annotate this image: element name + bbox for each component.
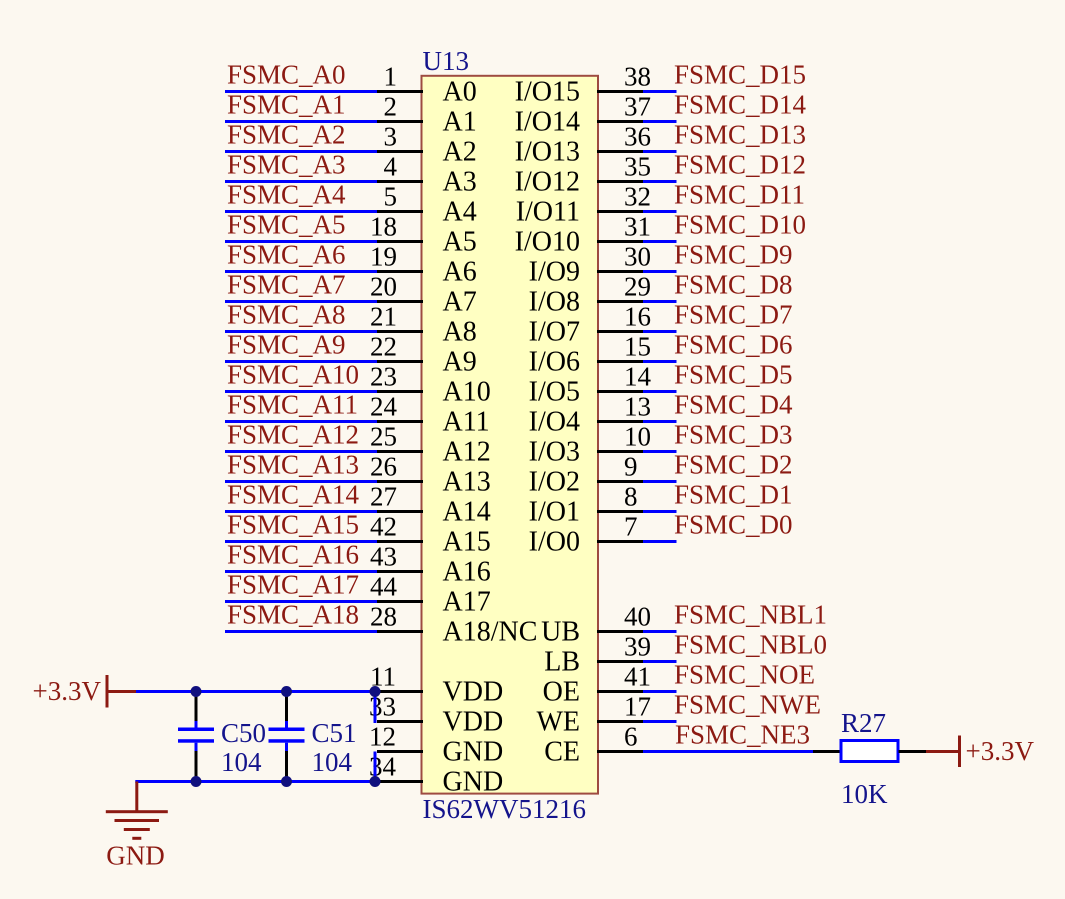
svg-text:FSMC_A9: FSMC_A9 — [227, 330, 346, 360]
junction — [191, 776, 202, 787]
net label FSMC_A4 — [227, 180, 346, 210]
U13 pin 24 (A11) — [370, 392, 490, 438]
svg-text:FSMC_A15: FSMC_A15 — [227, 510, 359, 540]
wire net FSMC_A1 (left) — [225, 120, 377, 123]
wire net FSMC_D4 (right) — [643, 420, 677, 423]
U13 pin 28 (A18/NC) — [370, 602, 537, 648]
svg-text:A13: A13 — [443, 467, 491, 498]
capacitor C50 top lead — [195, 692, 198, 729]
svg-text:FSMC_A10: FSMC_A10 — [227, 360, 359, 390]
U13 pin 40 (UB) — [541, 602, 651, 648]
svg-text:12: 12 — [369, 722, 396, 752]
wire net FSMC_A16 (left) — [225, 570, 377, 573]
IC U13 body (IS62WV51216 SRAM rectangle) — [422, 76, 599, 794]
svg-text:24: 24 — [370, 392, 398, 422]
U13 pin 42 (A15) — [370, 512, 491, 558]
U13 pin 1 (A0) — [377, 62, 477, 108]
net label FSMC_D10 — [674, 210, 806, 240]
svg-text:26: 26 — [370, 452, 397, 482]
svg-text:I/O5: I/O5 — [529, 377, 580, 408]
U13 comment IS62WV51216 — [423, 794, 587, 824]
net label FSMC_A13 — [227, 450, 359, 480]
svg-text:UB: UB — [541, 617, 580, 648]
capacitor C50 value 104 — [221, 747, 262, 777]
U13 pin 19 (A6) — [370, 242, 477, 288]
svg-text:I/O13: I/O13 — [515, 137, 580, 168]
wire net FSMC_A18 (left) — [225, 630, 377, 633]
svg-text:FSMC_D2: FSMC_D2 — [674, 450, 793, 480]
svg-text:GND: GND — [106, 841, 165, 871]
wire net FSMC_NBL0 (right) — [643, 660, 677, 663]
svg-text:VDD: VDD — [443, 677, 504, 708]
wire net FSMC_A9 (left) — [225, 360, 377, 363]
svg-text:A17: A17 — [443, 587, 491, 618]
power +3.3V port (right) — [926, 736, 1034, 768]
net label FSMC_D5 — [674, 360, 793, 390]
net label FSMC_D1 — [674, 480, 793, 510]
svg-text:29: 29 — [624, 272, 651, 302]
wire net FSMC_A14 (left) — [225, 510, 377, 513]
capacitor C51 value 104 — [312, 747, 353, 777]
net label FSMC_D0 — [674, 510, 793, 540]
net label FSMC_D12 — [674, 150, 806, 180]
wire net FSMC_D13 (right) — [643, 150, 677, 153]
power +3.3V port (left) — [33, 675, 136, 708]
junction — [370, 686, 381, 697]
net label FSMC_A12 — [227, 420, 359, 450]
svg-text:FSMC_A16: FSMC_A16 — [227, 540, 359, 570]
net label FSMC_NBL0 — [674, 630, 827, 660]
svg-text:FSMC_A8: FSMC_A8 — [227, 300, 346, 330]
svg-text:9: 9 — [624, 452, 638, 482]
svg-text:FSMC_A2: FSMC_A2 — [227, 120, 346, 150]
wire net FSMC_A17 (left) — [225, 600, 377, 603]
U13 pin 14 (I/O5) — [529, 362, 652, 408]
svg-text:10: 10 — [624, 422, 651, 452]
wire net FSMC_D3 (right) — [643, 450, 677, 453]
U13 pin 13 (I/O4) — [529, 392, 651, 438]
svg-text:21: 21 — [370, 302, 397, 332]
svg-text:A12: A12 — [443, 437, 491, 468]
U13 pin 12 (GND) — [369, 722, 503, 768]
svg-text:40: 40 — [624, 602, 651, 632]
capacitor C50 bottom lead — [195, 743, 198, 782]
net label FSMC_A8 — [227, 300, 346, 330]
svg-text:A16: A16 — [443, 557, 491, 588]
U13 pin 43 (A16) — [370, 542, 491, 588]
svg-text:FSMC_NE3: FSMC_NE3 — [675, 720, 810, 750]
wire net FSMC_D1 (right) — [643, 510, 677, 513]
U13 pin 25 (A12) — [370, 422, 491, 468]
net label FSMC_D14 — [674, 90, 807, 120]
svg-text:FSMC_A13: FSMC_A13 — [227, 450, 359, 480]
net label FSMC_A14 — [227, 480, 360, 510]
svg-text:FSMC_A11: FSMC_A11 — [227, 390, 358, 420]
svg-text:19: 19 — [370, 242, 397, 272]
wire net FSMC_A8 (left) — [225, 330, 377, 333]
svg-text:I/O7: I/O7 — [529, 317, 580, 348]
svg-text:A1: A1 — [443, 107, 477, 138]
resistor R27 pin 2 lead — [899, 750, 927, 753]
svg-text:C51: C51 — [312, 718, 357, 748]
wire net FSMC_A3 (left) — [225, 180, 377, 183]
U13 pin 33 (VDD) — [369, 692, 503, 738]
svg-text:A6: A6 — [443, 257, 477, 288]
svg-text:FSMC_A3: FSMC_A3 — [227, 150, 346, 180]
wire +3.3V rail — [136, 690, 377, 693]
net label FSMC_D3 — [674, 420, 793, 450]
wire net FSMC_A2 (left) — [225, 150, 377, 153]
wire net FSMC_NOE (right) — [643, 690, 677, 693]
wire net FSMC_A4 (left) — [225, 210, 377, 213]
U13 pin 8 (I/O1) — [529, 482, 643, 528]
svg-text:VDD: VDD — [443, 707, 504, 738]
svg-text:FSMC_A0: FSMC_A0 — [227, 60, 346, 90]
net label FSMC_A6 — [227, 240, 346, 270]
net label FSMC_A2 — [227, 120, 346, 150]
net label FSMC_A17 — [227, 570, 359, 600]
svg-text:I/O8: I/O8 — [529, 287, 580, 318]
svg-text:I/O6: I/O6 — [529, 347, 580, 378]
svg-text:FSMC_NBL0: FSMC_NBL0 — [674, 630, 827, 660]
wire net FSMC_A13 (left) — [225, 480, 377, 483]
svg-text:38: 38 — [624, 62, 651, 92]
svg-text:I/O11: I/O11 — [516, 197, 580, 228]
svg-text:43: 43 — [370, 542, 397, 572]
U13 pin 4 (A3) — [377, 152, 477, 198]
net label FSMC_NE3 — [675, 720, 810, 750]
svg-text:CE: CE — [544, 737, 580, 768]
svg-text:FSMC_A6: FSMC_A6 — [227, 240, 346, 270]
svg-text:A14: A14 — [443, 497, 491, 528]
capacitor C51 plates — [269, 728, 305, 743]
net label FSMC_D15 — [674, 60, 806, 90]
svg-text:A18/NC: A18/NC — [443, 617, 538, 648]
ground GND symbol — [106, 782, 168, 871]
U13 pin 32 (I/O11) — [516, 182, 651, 228]
wire net FSMC_D11 (right) — [643, 210, 677, 213]
junction — [370, 776, 381, 787]
svg-text:23: 23 — [370, 362, 397, 392]
svg-text:30: 30 — [624, 242, 651, 272]
svg-text:4: 4 — [384, 152, 398, 182]
net label FSMC_A9 — [227, 330, 346, 360]
net label FSMC_NWE — [674, 690, 821, 720]
svg-text:FSMC_D5: FSMC_D5 — [674, 360, 793, 390]
U13 pin 34 (GND) — [369, 752, 503, 798]
net label FSMC_A15 — [227, 510, 359, 540]
net label FSMC_D13 — [674, 120, 806, 150]
U13 pin 11 (VDD) — [370, 662, 503, 708]
svg-text:36: 36 — [624, 122, 651, 152]
U13 pin 17 (WE) — [536, 692, 651, 738]
wire net FSMC_A0 (left) — [225, 90, 377, 93]
svg-text:22: 22 — [370, 332, 397, 362]
net label FSMC_NBL1 — [674, 600, 827, 630]
svg-text:+3.3V: +3.3V — [966, 736, 1035, 766]
svg-text:I/O14: I/O14 — [515, 107, 580, 138]
svg-text:FSMC_NBL1: FSMC_NBL1 — [674, 600, 827, 630]
wire net FSMC_D9 (right) — [643, 270, 677, 273]
svg-text:R27: R27 — [841, 708, 886, 738]
svg-text:U13: U13 — [423, 46, 470, 76]
U13 pin 26 (A13) — [370, 452, 491, 498]
resistor R27 pin 1 lead — [813, 750, 841, 753]
U13 pin 44 (A17) — [370, 572, 491, 618]
svg-text:44: 44 — [370, 572, 398, 602]
svg-text:42: 42 — [370, 512, 397, 542]
wire net FSMC_D5 (right) — [643, 390, 677, 393]
wire net FSMC_D12 (right) — [643, 180, 677, 183]
svg-text:3: 3 — [384, 122, 398, 152]
svg-text:I/O4: I/O4 — [529, 407, 580, 438]
net label FSMC_NOE — [674, 660, 815, 690]
svg-text:FSMC_D10: FSMC_D10 — [674, 210, 806, 240]
svg-text:LB: LB — [544, 647, 580, 678]
U13 pin 38 (I/O15) — [515, 62, 651, 108]
wire net FSMC_NWE (right) — [643, 720, 677, 723]
U13 pin 15 (I/O6) — [529, 332, 651, 378]
svg-text:FSMC_D6: FSMC_D6 — [674, 330, 793, 360]
svg-text:27: 27 — [370, 482, 397, 512]
svg-text:32: 32 — [624, 182, 651, 212]
net label FSMC_D6 — [674, 330, 793, 360]
wire net FSMC_A15 (left) — [225, 540, 377, 543]
net label FSMC_A3 — [227, 150, 346, 180]
wire net FSMC_A12 (left) — [225, 450, 377, 453]
svg-text:I/O12: I/O12 — [515, 167, 580, 198]
svg-text:I/O15: I/O15 — [515, 77, 580, 108]
svg-text:I/O0: I/O0 — [529, 527, 580, 558]
svg-text:A7: A7 — [443, 287, 477, 318]
svg-text:2: 2 — [384, 92, 398, 122]
svg-text:28: 28 — [370, 602, 397, 632]
svg-text:OE: OE — [543, 677, 580, 708]
net label FSMC_D4 — [674, 390, 793, 420]
svg-text:I/O9: I/O9 — [529, 257, 580, 288]
svg-text:A5: A5 — [443, 227, 477, 258]
svg-text:15: 15 — [624, 332, 651, 362]
wire net FSMC_A5 (left) — [225, 240, 377, 243]
U13 pin 6 (CE) — [544, 722, 643, 768]
net label FSMC_A5 — [227, 210, 346, 240]
svg-text:25: 25 — [370, 422, 397, 452]
wire net FSMC_D2 (right) — [643, 480, 677, 483]
svg-text:5: 5 — [384, 182, 398, 212]
svg-text:FSMC_D13: FSMC_D13 — [674, 120, 806, 150]
svg-text:6: 6 — [624, 722, 638, 752]
net label FSMC_D2 — [674, 450, 793, 480]
svg-text:FSMC_A14: FSMC_A14 — [227, 480, 360, 510]
svg-text:FSMC_D8: FSMC_D8 — [674, 270, 793, 300]
svg-text:FSMC_A5: FSMC_A5 — [227, 210, 346, 240]
U13 designator — [423, 46, 470, 76]
U13 pin 3 (A2) — [377, 122, 477, 168]
svg-text:13: 13 — [624, 392, 651, 422]
svg-text:A10: A10 — [443, 377, 491, 408]
U13 pin 29 (I/O8) — [529, 272, 651, 318]
svg-text:GND: GND — [443, 737, 504, 768]
svg-text:A4: A4 — [443, 197, 477, 228]
U13 pin 2 (A1) — [377, 92, 477, 138]
net label FSMC_A7 — [227, 270, 346, 300]
svg-text:FSMC_D9: FSMC_D9 — [674, 240, 793, 270]
wire net FSMC_D0 (right) — [643, 540, 677, 543]
capacitor C50 designator — [221, 718, 266, 748]
junction — [191, 686, 202, 697]
wire net FSMC_A6 (left) — [225, 270, 377, 273]
svg-text:FSMC_D15: FSMC_D15 — [674, 60, 806, 90]
net label FSMC_A18 — [227, 600, 359, 630]
net label FSMC_D9 — [674, 240, 793, 270]
U13 pin 27 (A14) — [370, 482, 491, 528]
svg-text:104: 104 — [221, 747, 262, 777]
wire VDD drop to pin 33 — [374, 692, 377, 724]
svg-text:A2: A2 — [443, 137, 477, 168]
svg-text:FSMC_A7: FSMC_A7 — [227, 270, 346, 300]
net label FSMC_D8 — [674, 270, 793, 300]
U13 pin 5 (A4) — [377, 182, 477, 228]
U13 pin 16 (I/O7) — [529, 302, 651, 348]
wire net FSMC_D10 (right) — [643, 240, 677, 243]
svg-text:8: 8 — [624, 482, 638, 512]
wire net FSMC_D6 (right) — [643, 360, 677, 363]
U13 pin 21 (A8) — [370, 302, 477, 348]
junction — [281, 686, 292, 697]
svg-text:A8: A8 — [443, 317, 477, 348]
wire net FSMC_D15 (right) — [643, 90, 677, 93]
svg-text:1: 1 — [384, 62, 398, 92]
svg-text:FSMC_NOE: FSMC_NOE — [674, 660, 815, 690]
wire net FSMC_NE3 — [643, 750, 813, 753]
svg-text:17: 17 — [624, 692, 651, 722]
svg-text:FSMC_A12: FSMC_A12 — [227, 420, 359, 450]
wire net FSMC_NBL1 (right) — [643, 630, 677, 633]
svg-text:39: 39 — [624, 632, 651, 662]
svg-text:WE: WE — [536, 707, 580, 738]
svg-text:I/O1: I/O1 — [529, 497, 580, 528]
wire net FSMC_A7 (left) — [225, 300, 377, 303]
svg-text:14: 14 — [624, 362, 652, 392]
svg-text:20: 20 — [370, 272, 397, 302]
U13 pin 39 (LB) — [544, 632, 651, 678]
net label FSMC_D11 — [674, 180, 805, 210]
svg-text:A3: A3 — [443, 167, 477, 198]
svg-text:7: 7 — [624, 512, 638, 542]
wire net FSMC_D7 (right) — [643, 330, 677, 333]
svg-text:FSMC_A1: FSMC_A1 — [227, 90, 346, 120]
net label FSMC_A11 — [227, 390, 358, 420]
svg-text:16: 16 — [624, 302, 651, 332]
svg-text:FSMC_D14: FSMC_D14 — [674, 90, 807, 120]
U13 pin 37 (I/O14) — [515, 92, 651, 138]
U13 pin 10 (I/O3) — [529, 422, 651, 468]
U13 pin 36 (I/O13) — [515, 122, 651, 168]
svg-text:I/O3: I/O3 — [529, 437, 580, 468]
svg-text:41: 41 — [624, 662, 651, 692]
svg-text:A15: A15 — [443, 527, 491, 558]
svg-text:FSMC_D7: FSMC_D7 — [674, 300, 793, 330]
junction — [281, 776, 292, 787]
svg-text:FSMC_D0: FSMC_D0 — [674, 510, 793, 540]
svg-text:I/O2: I/O2 — [529, 467, 580, 498]
svg-text:FSMC_A4: FSMC_A4 — [227, 180, 346, 210]
net label FSMC_A1 — [227, 90, 346, 120]
U13 pin 31 (I/O10) — [515, 212, 651, 258]
svg-text:A0: A0 — [443, 77, 477, 108]
U13 pin 18 (A5) — [370, 212, 477, 258]
svg-text:FSMC_D12: FSMC_D12 — [674, 150, 806, 180]
capacitor C50 plates — [178, 728, 214, 743]
svg-text:FSMC_A17: FSMC_A17 — [227, 570, 359, 600]
wire GND drop pin 12 to rail — [374, 752, 377, 784]
U13 pin 7 (I/O0) — [529, 512, 643, 558]
net label FSMC_A0 — [227, 60, 346, 90]
svg-text:FSMC_D1: FSMC_D1 — [674, 480, 793, 510]
net label FSMC_A16 — [227, 540, 359, 570]
svg-text:FSMC_NWE: FSMC_NWE — [674, 690, 821, 720]
svg-text:FSMC_D4: FSMC_D4 — [674, 390, 793, 420]
svg-text:10K: 10K — [841, 779, 888, 809]
U13 pin 20 (A7) — [370, 272, 477, 318]
svg-text:A11: A11 — [443, 407, 490, 438]
wire GND rail — [135, 780, 376, 783]
capacitor C51 top lead — [285, 692, 288, 729]
svg-text:C50: C50 — [221, 718, 266, 748]
svg-text:+3.3V: +3.3V — [33, 676, 102, 706]
wire net FSMC_D8 (right) — [643, 300, 677, 303]
svg-text:FSMC_D11: FSMC_D11 — [674, 180, 805, 210]
svg-text:I/O10: I/O10 — [515, 227, 580, 258]
net label FSMC_A10 — [227, 360, 359, 390]
svg-text:31: 31 — [624, 212, 651, 242]
svg-text:104: 104 — [312, 747, 353, 777]
capacitor C51 designator — [312, 718, 357, 748]
svg-text:A9: A9 — [443, 347, 477, 378]
svg-text:FSMC_D3: FSMC_D3 — [674, 420, 793, 450]
svg-text:GND: GND — [443, 767, 504, 798]
U13 pin 30 (I/O9) — [529, 242, 651, 288]
capacitor C51 bottom lead — [285, 743, 288, 782]
U13 pin 9 (I/O2) — [529, 452, 643, 498]
wire net FSMC_D14 (right) — [643, 120, 677, 123]
U13 pin 41 (OE) — [543, 662, 651, 708]
svg-text:37: 37 — [624, 92, 651, 122]
wire net FSMC_A11 (left) — [225, 420, 377, 423]
wire net FSMC_A10 (left) — [225, 390, 377, 393]
U13 pin 23 (A10) — [370, 362, 491, 408]
svg-text:FSMC_A18: FSMC_A18 — [227, 600, 359, 630]
svg-text:35: 35 — [624, 152, 651, 182]
svg-text:IS62WV51216: IS62WV51216 — [423, 794, 587, 824]
U13 pin 35 (I/O12) — [515, 152, 651, 198]
net label FSMC_D7 — [674, 300, 793, 330]
svg-text:18: 18 — [370, 212, 397, 242]
resistor R27 — [841, 708, 898, 809]
U13 pin 22 (A9) — [370, 332, 477, 378]
